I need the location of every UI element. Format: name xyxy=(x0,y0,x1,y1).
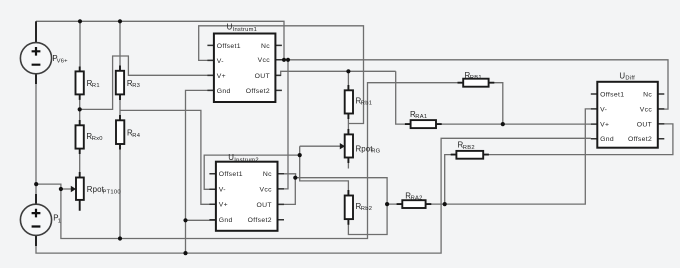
wire top supply rail from V6+ to Vcc column xyxy=(36,21,284,60)
wire left rail between sources xyxy=(35,74,37,205)
wire out2 net to RA2 left xyxy=(295,178,402,204)
wire Gnd of U_Instrum1 down to ground rail xyxy=(186,90,214,253)
wire RA1 pins xyxy=(405,123,442,125)
node gnd rail xyxy=(183,251,187,255)
wire RG wiper line xyxy=(300,145,341,147)
arrowhead PT100 wiper xyxy=(71,186,76,192)
wire RB2 pins xyxy=(451,154,489,156)
node RA2 right xyxy=(443,202,447,206)
svg-text:R1: R1 xyxy=(92,83,100,89)
wire R1 pins xyxy=(79,67,81,100)
wire staple from R1/Rx0 node over R3 to V+ of U_Instrum1 xyxy=(80,56,214,109)
resistor Rx0 xyxy=(76,125,84,148)
wire V- of U_Instrum2 over title to wiper riser xyxy=(204,155,300,189)
svg-text:Nc: Nc xyxy=(261,43,270,50)
wire Rx0 pins xyxy=(79,120,81,154)
node out2 Nc2 xyxy=(293,176,297,180)
resistor Rb2 xyxy=(345,196,353,220)
wire P2 top pin xyxy=(35,194,37,205)
wire RA2 right to V- of U_Diff xyxy=(426,109,591,204)
resistor RA1 xyxy=(411,120,436,128)
resistor RB1 xyxy=(463,79,488,87)
wire R1 top lead xyxy=(79,21,81,71)
resistor R1 xyxy=(76,71,84,94)
svg-text:R4: R4 xyxy=(132,133,140,139)
wire Nc of U_Instrum2 to out node xyxy=(278,174,296,178)
wire RB2 left riser to RA2 node xyxy=(445,155,457,205)
pin stubs U_Instrum1 xyxy=(207,45,214,90)
wire wiper riser to Rb2 top xyxy=(300,146,349,195)
wire RA2 pins xyxy=(397,203,432,205)
svg-text:Gnd: Gnd xyxy=(217,88,231,95)
svg-text:Instrum1: Instrum1 xyxy=(233,27,258,33)
svg-text:Offset1: Offset1 xyxy=(219,171,243,178)
svg-text:V-: V- xyxy=(217,58,224,65)
node Vcc1 b xyxy=(286,58,290,62)
svg-text:V+: V+ xyxy=(217,73,226,80)
svg-text:Rb1: Rb1 xyxy=(361,101,372,107)
potentiometer RpotRG xyxy=(345,134,353,157)
wire R4 bottom to lower rail xyxy=(119,144,121,239)
op-amp U_Instrum1 xyxy=(214,34,276,103)
wire RG bottom stub xyxy=(347,158,349,169)
wire R3 top lead xyxy=(119,21,121,71)
svg-text:OUT: OUT xyxy=(255,73,270,80)
wire Rb1 top lead xyxy=(347,71,349,90)
wire V- of U_Instrum1 over title to RG top junction xyxy=(199,26,364,124)
voltage source P_V6+ xyxy=(20,43,51,74)
wire OUT of U_Instrum2 riser xyxy=(278,178,296,205)
wire gnd tee to Gnd of U_Instrum2 xyxy=(186,219,216,221)
op-amp U_Instrum2 xyxy=(216,162,278,231)
node wiper riser xyxy=(59,187,63,191)
svg-text:RA2: RA2 xyxy=(411,196,423,202)
node top rail R1 xyxy=(78,19,82,23)
node gnd2 tee xyxy=(183,218,187,222)
svg-text:Vcc: Vcc xyxy=(640,106,653,113)
svg-text:Rx0: Rx0 xyxy=(92,136,103,142)
wire R3/R4 tee to V+ of U_Instrum2 xyxy=(120,110,216,204)
resistor R4 xyxy=(116,120,124,144)
svg-text:Offset1: Offset1 xyxy=(217,43,241,50)
node V+diff line xyxy=(501,122,505,126)
svg-text:R3: R3 xyxy=(132,83,140,89)
svg-text:Vcc: Vcc xyxy=(258,57,271,64)
svg-text:V-: V- xyxy=(600,106,607,113)
resistor RA2 xyxy=(402,200,425,208)
node R1 Rx0 xyxy=(78,107,82,111)
wire Rb1 bottom to RG top xyxy=(347,114,349,135)
wire V6+ top pin xyxy=(35,21,37,42)
wire R3 pins xyxy=(119,66,121,101)
svg-text:1: 1 xyxy=(58,219,61,225)
svg-text:V+: V+ xyxy=(219,202,228,209)
svg-text:Vcc: Vcc xyxy=(260,186,273,193)
resistor RB2 xyxy=(456,151,483,159)
wire R1 bottom to node xyxy=(79,94,81,109)
svg-text:RA1: RA1 xyxy=(415,114,427,120)
svg-text:RB1: RB1 xyxy=(470,75,482,81)
resistor Rb1 xyxy=(345,90,353,113)
pin stubs U_Diff xyxy=(591,94,598,139)
svg-text:RB2: RB2 xyxy=(463,145,475,151)
svg-text:Nc: Nc xyxy=(263,171,272,178)
wire RB1 right to V+ line xyxy=(489,83,503,124)
wire OUT1 riser to RA1 left xyxy=(396,71,411,124)
svg-text:V6+: V6+ xyxy=(57,58,69,64)
svg-text:Nc: Nc xyxy=(643,91,652,98)
svg-text:PT100: PT100 xyxy=(103,190,121,196)
op-amp U_Diff xyxy=(597,82,658,148)
wire RA1 right to V+ of U_Diff xyxy=(436,123,591,125)
wire out2 node down to Rb2 bottom loop xyxy=(348,204,387,234)
svg-text:OUT: OUT xyxy=(256,202,271,209)
wire Vcc riser to U_Instrum2 Vcc xyxy=(278,60,289,189)
wire RpotPT100 pins xyxy=(79,172,81,211)
svg-text:Offset2: Offset2 xyxy=(248,217,272,224)
svg-text:OUT: OUT xyxy=(637,121,652,128)
potentiometer RpotPT100 xyxy=(76,178,84,200)
wire OUT of U_Diff feedback to RB2 right xyxy=(483,124,673,155)
wire P2 bottom ground rail to UDiff Gnd xyxy=(36,138,591,253)
pin stubs U_Instrum2 xyxy=(209,174,216,220)
svg-text:Gnd: Gnd xyxy=(600,136,614,143)
voltage source P_1 xyxy=(20,204,51,235)
svg-text:Instrum2: Instrum2 xyxy=(234,157,259,163)
svg-text:Offset1: Offset1 xyxy=(600,91,624,98)
wire RB1 pins xyxy=(458,82,495,84)
node Rb1 top xyxy=(346,69,350,73)
wire P2 bottom pin xyxy=(35,235,37,246)
node R4 lower rail xyxy=(118,236,122,240)
node Vcc1 a xyxy=(282,58,286,62)
svg-text:RG: RG xyxy=(371,149,380,155)
wire Vcc rail to U_Diff Vcc xyxy=(275,60,668,109)
wire RpotRG pins xyxy=(347,129,349,163)
svg-text:V+: V+ xyxy=(600,122,609,129)
wire Rb2 pins xyxy=(347,190,349,225)
node RA2 left xyxy=(385,202,389,206)
wire Rb1 pins xyxy=(347,85,349,119)
wire R4 pins xyxy=(119,115,121,150)
svg-text:Diff: Diff xyxy=(625,76,635,82)
wire Rx0 bottom to PT100 top xyxy=(79,149,81,178)
wire R3 to R4 xyxy=(119,94,121,120)
svg-text:V-: V- xyxy=(219,187,226,194)
svg-text:Offset2: Offset2 xyxy=(628,136,652,143)
node V-2 wiper xyxy=(298,153,302,157)
svg-text:Rb2: Rb2 xyxy=(361,206,372,212)
arrowhead RG wiper xyxy=(340,143,345,149)
wire wiper net riser to RB1 left xyxy=(61,83,463,239)
node top rail R3 xyxy=(118,19,122,23)
wire OUT of U_Instrum1 to RA1 column xyxy=(275,71,395,75)
wire V6+ bottom pin xyxy=(35,73,37,84)
wire node to Rx0 top xyxy=(79,109,81,125)
svg-text:Offset2: Offset2 xyxy=(246,88,270,95)
node left rail wiper xyxy=(34,182,38,186)
wire node A to PT100 wiper jog xyxy=(36,184,71,189)
resistor R3 xyxy=(116,71,124,95)
svg-text:Gnd: Gnd xyxy=(219,217,233,224)
